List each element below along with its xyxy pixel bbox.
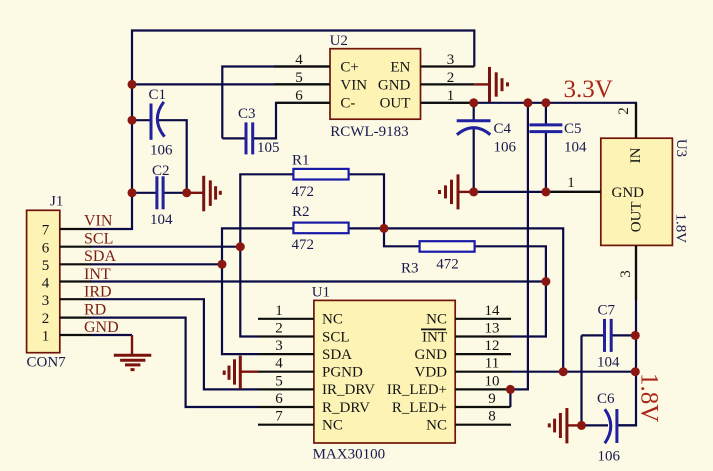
- svg-text:U1: U1: [312, 285, 330, 301]
- wire C7 left vertical: [580, 335, 582, 425]
- pin J1.3: [60, 298, 91, 300]
- wire C6 left lead: [582, 424, 609, 426]
- svg-text:14: 14: [485, 303, 501, 319]
- svg-text:EN: EN: [390, 59, 410, 75]
- wire C4 top lead: [473, 103, 475, 121]
- node pull-up junction: [380, 224, 389, 233]
- svg-text:106: 106: [494, 140, 517, 156]
- capacitor C6 (polarized): [597, 391, 621, 465]
- svg-text:4: 4: [295, 52, 303, 68]
- wire U2 pin5 VIN row: [132, 83, 330, 85]
- wire pull-up node jog to R3 left: [384, 228, 420, 246]
- svg-text:RCWL-9183: RCWL-9183: [330, 124, 408, 140]
- pin U1.8: [455, 409, 511, 425]
- svg-text:NC: NC: [426, 418, 447, 434]
- pin U1.6: [258, 391, 314, 407]
- ground at U1 pin4 PGND: [224, 356, 258, 390]
- svg-text:GND: GND: [84, 319, 119, 336]
- wire IRD from J1.3 to U1 pin5: [90, 299, 258, 389]
- resistor R1: [292, 153, 349, 201]
- svg-text:C6: C6: [597, 391, 615, 407]
- capacitor C4 (polarized): [457, 121, 517, 156]
- svg-text:5: 5: [275, 373, 283, 389]
- svg-text:472: 472: [292, 184, 315, 200]
- wire C4 bottom lead: [473, 129, 475, 192]
- svg-text:INT: INT: [84, 266, 111, 283]
- pin U1.14: [455, 303, 511, 319]
- pin U1.10: [455, 373, 511, 389]
- wire C3 right lead to U2 pin6 C-: [253, 103, 330, 139]
- svg-text:R3: R3: [401, 261, 419, 277]
- svg-text:3.3V: 3.3V: [564, 76, 613, 103]
- svg-text:3: 3: [42, 293, 50, 309]
- ground below J1: [114, 335, 152, 370]
- svg-text:OUT: OUT: [629, 201, 645, 232]
- pin U1.7: [258, 409, 314, 425]
- svg-text:C2: C2: [152, 163, 170, 179]
- wire C7 left lead: [582, 334, 605, 336]
- wire R3 right to INT vertical to U1 pin13: [475, 246, 546, 336]
- wire C5 top lead: [545, 103, 547, 125]
- wire R2 right to pull-up node: [349, 227, 384, 229]
- wire ground row to U3 pin1 GND: [474, 191, 601, 193]
- svg-text:1: 1: [42, 329, 50, 345]
- svg-text:C-: C-: [340, 96, 355, 112]
- capacitor C7: [597, 303, 620, 371]
- svg-text:4: 4: [42, 276, 50, 292]
- svg-text:VIN: VIN: [84, 212, 113, 229]
- svg-text:U3: U3: [673, 139, 689, 157]
- ground at U2 pin2: [474, 67, 507, 102]
- svg-text:1: 1: [447, 88, 455, 104]
- pin J1.1: [60, 334, 91, 336]
- node SDA junction: [218, 260, 227, 269]
- svg-text:IN: IN: [628, 147, 644, 163]
- pin U1.5: [258, 373, 314, 389]
- regulator U3: [601, 138, 689, 245]
- capacitor C3: [238, 106, 280, 156]
- wire C2 left lead: [132, 192, 157, 194]
- svg-text:3: 3: [447, 52, 455, 68]
- svg-text:2: 2: [447, 70, 455, 86]
- svg-text:R_DRV: R_DRV: [322, 400, 370, 416]
- ground left of C4: [440, 174, 474, 209]
- svg-text:R_LED+: R_LED+: [392, 400, 447, 416]
- pin U1.12: [455, 338, 511, 354]
- svg-text:CON7: CON7: [27, 355, 67, 371]
- svg-text:5: 5: [295, 70, 303, 86]
- node rail C5 junction: [541, 98, 550, 107]
- pin U1.9: [455, 391, 510, 407]
- pin U2.1: [421, 88, 475, 104]
- svg-text:NC: NC: [322, 418, 343, 434]
- pin U2.5: [274, 70, 330, 86]
- node C1/C2 ground junction: [182, 188, 191, 197]
- node gnd C4 junction: [469, 187, 478, 196]
- svg-text:104: 104: [597, 355, 620, 371]
- node INT junction: [541, 277, 550, 286]
- pin J1.2: [60, 317, 91, 319]
- svg-text:6: 6: [42, 240, 50, 256]
- svg-text:1: 1: [275, 303, 283, 319]
- svg-text:106: 106: [598, 449, 621, 465]
- pin U2.3: [421, 52, 475, 68]
- svg-text:472: 472: [292, 237, 315, 253]
- svg-text:104: 104: [150, 212, 173, 228]
- pin U1.2: [258, 321, 314, 337]
- svg-text:IRD: IRD: [84, 283, 112, 300]
- pin U1.1: [258, 303, 314, 319]
- svg-text:6: 6: [275, 391, 283, 407]
- svg-text:R1: R1: [292, 153, 310, 169]
- resistor R2: [292, 204, 349, 253]
- svg-text:1.8V: 1.8V: [673, 214, 689, 244]
- svg-text:OUT: OUT: [380, 96, 411, 112]
- wire U1 pin11 VDD row to 1.8V vertical: [511, 371, 635, 373]
- svg-text:PGND: PGND: [322, 365, 363, 381]
- svg-text:SDA: SDA: [322, 347, 352, 363]
- svg-text:MAX30100: MAX30100: [313, 447, 386, 463]
- svg-text:J1: J1: [50, 194, 63, 210]
- svg-text:SCL: SCL: [84, 230, 113, 247]
- wire R2 left to SDA vertical to U1 pin3: [222, 228, 293, 354]
- svg-text:4: 4: [275, 356, 283, 372]
- wire VIN net: J1.7 to top rail to U2 EN drop: [90, 31, 474, 230]
- wire GND from J1.1: [90, 334, 132, 336]
- node C6 ground junction: [577, 421, 586, 430]
- svg-text:INT: INT: [422, 329, 447, 345]
- node SCL junction: [236, 242, 245, 251]
- wire U3 OUT 1.8V vertical down to C6 right: [617, 245, 636, 425]
- pin U1.13: [455, 321, 511, 337]
- node C7 right junction: [631, 331, 640, 340]
- wire C1 right lead down to C2 right node: [159, 120, 187, 193]
- pin U1.11: [455, 356, 511, 372]
- svg-text:7: 7: [275, 409, 283, 425]
- wire pull-up node to VDD row: [384, 228, 563, 371]
- svg-text:C1: C1: [149, 87, 167, 103]
- pin J1.7: [60, 228, 91, 230]
- svg-text:IR_LED+: IR_LED+: [387, 382, 447, 398]
- capacitor C1 (polarized): [149, 87, 174, 159]
- svg-text:6: 6: [295, 88, 303, 104]
- wire U2 pin4 C+ row: [222, 67, 330, 139]
- wire C1 left lead: [132, 119, 151, 121]
- pin U2.6: [276, 88, 330, 104]
- svg-text:NC: NC: [426, 312, 447, 328]
- svg-text:U2: U2: [330, 33, 348, 49]
- svg-text:472: 472: [436, 257, 459, 273]
- svg-text:C3: C3: [238, 106, 256, 122]
- svg-text:7: 7: [42, 223, 50, 239]
- IC U1 MAX30100: [312, 285, 456, 463]
- svg-text:GND: GND: [378, 77, 411, 93]
- node gnd C5 junction: [541, 187, 550, 196]
- node rail LED junction: [523, 98, 532, 107]
- wire C7 right lead: [611, 334, 635, 336]
- pin U3.1: [546, 175, 601, 192]
- svg-text:NC: NC: [322, 312, 343, 328]
- svg-text:IR_DRV: IR_DRV: [322, 382, 375, 398]
- wire R1 left to SCL vertical to U1 pin2: [240, 174, 293, 336]
- svg-text:2: 2: [275, 321, 283, 337]
- pin U2.4: [274, 52, 330, 68]
- svg-text:C+: C+: [340, 59, 358, 75]
- pin U3.3: [618, 245, 636, 300]
- wire SCL from J1.6: [90, 246, 240, 248]
- svg-text:2: 2: [616, 107, 632, 115]
- svg-text:106: 106: [150, 143, 173, 159]
- connector J1 CON7: [27, 194, 67, 371]
- wire INT from J1.4: [90, 280, 546, 282]
- svg-text:C7: C7: [598, 303, 616, 319]
- pin J1.6: [60, 246, 91, 248]
- pin U1.3: [258, 338, 314, 354]
- wire RD from J1.2 to U1 pin6: [90, 318, 258, 407]
- svg-text:R2: R2: [292, 204, 310, 220]
- op-amp regulator U2 RCWL-9183: [330, 33, 421, 140]
- svg-text:1.8V: 1.8V: [636, 373, 663, 422]
- svg-text:1: 1: [567, 175, 575, 191]
- svg-text:VDD: VDD: [415, 365, 448, 381]
- wire U1 pin9 up to pin10 row: [509, 389, 511, 407]
- svg-text:VIN: VIN: [340, 77, 367, 93]
- node rail C4 junction: [469, 98, 478, 107]
- svg-text:SDA: SDA: [84, 248, 116, 265]
- wire R1 right down to pull-up node: [349, 174, 384, 228]
- svg-text:12: 12: [485, 338, 500, 354]
- ground right of C2: [187, 176, 221, 212]
- capacitor C5: [529, 121, 587, 156]
- pin J1.5: [60, 263, 91, 265]
- svg-text:9: 9: [488, 391, 496, 407]
- pin U1.4: [258, 356, 314, 372]
- wire C2 right lead: [163, 192, 187, 194]
- node VIN/U2.5 junction: [128, 80, 137, 89]
- svg-text:C4: C4: [494, 121, 512, 137]
- node VDD 1.8V junction: [631, 367, 640, 376]
- resistor R3: [401, 241, 475, 276]
- svg-text:8: 8: [488, 409, 496, 425]
- node VDD pull-up junction: [559, 367, 568, 376]
- svg-text:2: 2: [42, 311, 50, 327]
- wire C5 bottom lead: [545, 132, 547, 192]
- svg-text:GND: GND: [612, 185, 645, 201]
- svg-text:GND: GND: [415, 347, 448, 363]
- svg-text:105: 105: [257, 140, 280, 156]
- svg-text:104: 104: [564, 140, 587, 156]
- wire C3 left lead: [222, 137, 246, 139]
- pin J1.4: [60, 280, 91, 282]
- pin U3.2: [616, 103, 636, 138]
- wire LED supply: 3.3V rail down to U1 pin10 row: [511, 103, 528, 390]
- pin U2.2: [421, 70, 475, 86]
- wire 3.3V rail from U2 OUT to U3 IN: [421, 103, 637, 138]
- svg-text:RD: RD: [84, 301, 106, 318]
- svg-text:13: 13: [485, 321, 500, 337]
- svg-text:5: 5: [42, 258, 50, 274]
- svg-text:SCL: SCL: [322, 329, 350, 345]
- node C1 junction: [128, 116, 137, 125]
- node C2 junction: [128, 188, 137, 197]
- svg-text:3: 3: [618, 270, 634, 278]
- svg-text:3: 3: [275, 338, 283, 354]
- capacitor C2: [150, 163, 173, 228]
- svg-text:10: 10: [485, 373, 500, 389]
- wire SDA from J1.5: [90, 263, 222, 265]
- svg-text:11: 11: [485, 356, 499, 372]
- ground left of C6: [549, 408, 581, 443]
- node LED+ junction: [506, 385, 515, 394]
- svg-text:C5: C5: [564, 121, 582, 137]
- wire C6 right lead: [617, 424, 636, 426]
